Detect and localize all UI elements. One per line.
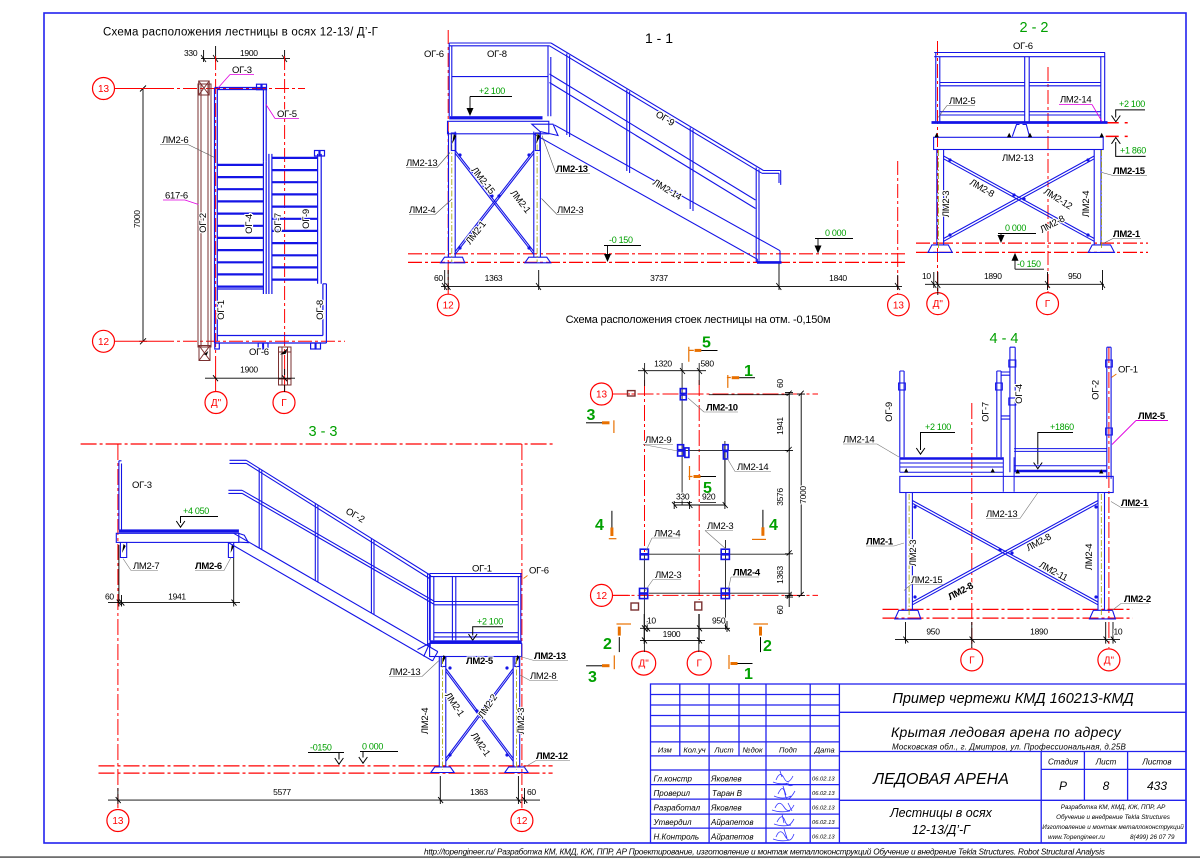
level red dash +2100 bbox=[1106, 122, 1133, 124]
sloped mid rails bbox=[550, 74, 756, 209]
left revision table horizontals bbox=[651, 695, 840, 829]
svg-text:ЛМ2-3: ЛМ2-3 bbox=[941, 191, 952, 217]
svg-text:Подп: Подп bbox=[779, 746, 797, 755]
svg-text:+2 100: +2 100 bbox=[1119, 99, 1145, 109]
ground red lines bbox=[916, 243, 1148, 252]
svg-text:4 - 4: 4 - 4 bbox=[989, 331, 1018, 347]
black arrow left stub bbox=[204, 351, 209, 355]
dim 330/920 bbox=[672, 444, 728, 509]
svg-text:Проверил: Проверил bbox=[654, 789, 691, 798]
column centerlines olive bbox=[909, 494, 1101, 617]
platform beam bbox=[934, 137, 1104, 149]
svg-text:10: 10 bbox=[1114, 627, 1123, 637]
svg-text:06.02.13: 06.02.13 bbox=[812, 791, 835, 797]
column marker LM2-3 left axis12 bbox=[640, 588, 648, 593]
svg-text:950: 950 bbox=[1068, 271, 1082, 281]
axis D2 vertical red bbox=[1108, 347, 1110, 648]
axis 12 vertical red bbox=[521, 444, 523, 808]
section mark 4 left bbox=[611, 511, 613, 529]
section mark 5 top bbox=[688, 347, 694, 362]
axis G vertical red bbox=[284, 56, 286, 358]
svg-text:06.02.13: 06.02.13 bbox=[812, 820, 835, 826]
svg-text:Московская обл., г. Дмитров, у: Московская обл., г. Дмитров, ул. Професс… bbox=[892, 743, 1127, 752]
column centerlines olive bbox=[443, 658, 517, 770]
stringer foot bbox=[757, 261, 782, 264]
svg-text:ОГ-3: ОГ-3 bbox=[132, 480, 152, 491]
svg-text:06.02.13: 06.02.13 bbox=[812, 806, 835, 812]
left revision table verticals bbox=[680, 684, 840, 843]
svg-text:ОГ-7: ОГ-7 bbox=[981, 402, 992, 422]
bottom grey strip bbox=[0, 856, 1200, 858]
axis 13 red horizontal bbox=[613, 393, 819, 395]
svg-text:3: 3 bbox=[588, 669, 597, 686]
black arrows column tops bbox=[451, 133, 540, 151]
svg-text:10: 10 bbox=[922, 271, 931, 281]
stringer bbox=[229, 533, 438, 661]
axis circle Г bbox=[687, 651, 711, 675]
svg-text:Дата: Дата bbox=[814, 746, 835, 755]
svg-text:Н.Контроль: Н.Контроль bbox=[654, 833, 700, 842]
svg-text:ЛМ2-5: ЛМ2-5 bbox=[466, 656, 494, 667]
svg-text:1941: 1941 bbox=[775, 417, 785, 435]
svg-text:950: 950 bbox=[712, 616, 726, 626]
svg-text:Р: Р bbox=[1059, 779, 1067, 793]
right section verticals bbox=[1041, 752, 1127, 844]
svg-text:Д": Д" bbox=[933, 299, 944, 310]
columns 3-3 bbox=[431, 657, 528, 773]
svg-text:ЛМ2-4: ЛМ2-4 bbox=[1084, 544, 1095, 570]
svg-text:ЛМ2-3: ЛМ2-3 bbox=[908, 540, 919, 566]
axis circle Д" bbox=[205, 392, 227, 414]
axis circle 13 bbox=[93, 78, 115, 100]
title block outer frame bbox=[651, 684, 1187, 843]
svg-text:Крытая ледовая арена по адресу: Крытая ледовая арена по адресу bbox=[891, 724, 1122, 740]
svg-text:Кол.уч: Кол.уч bbox=[683, 746, 705, 755]
svg-text:+4 050: +4 050 bbox=[183, 506, 209, 516]
X bracing bbox=[912, 501, 1098, 605]
svg-text:Стадия: Стадия bbox=[1048, 758, 1079, 767]
svg-text:60: 60 bbox=[775, 379, 785, 388]
post OG-9 bbox=[899, 347, 1113, 479]
svg-text:4: 4 bbox=[595, 517, 604, 534]
OG-3 rail post bbox=[119, 461, 122, 530]
svg-text:Лестницы в осях: Лестницы в осях bbox=[889, 806, 993, 820]
svg-text:-0 150: -0 150 bbox=[1017, 259, 1041, 269]
svg-text:2 - 2: 2 - 2 bbox=[1019, 20, 1048, 36]
dim 7000 vertical bbox=[139, 86, 147, 345]
section mark 2 bottom-left bbox=[618, 637, 620, 652]
svg-text:13: 13 bbox=[112, 816, 124, 827]
svg-text:0 000: 0 000 bbox=[1005, 223, 1026, 233]
svg-text:1: 1 bbox=[744, 363, 753, 380]
axis circle 12 bbox=[93, 330, 115, 352]
svg-text:www.Topengineer.ru: www.Topengineer.ru bbox=[1048, 834, 1105, 841]
svg-text:Таран В: Таран В bbox=[712, 789, 743, 798]
svg-text:12: 12 bbox=[596, 591, 608, 602]
gusset dots bbox=[448, 666, 508, 756]
svg-text:Схема расположения стоек лестн: Схема расположения стоек лестницы на отм… bbox=[566, 314, 831, 326]
axis circle Г bbox=[1037, 293, 1059, 315]
svg-text:4: 4 bbox=[769, 517, 778, 534]
svg-text:Д": Д" bbox=[1104, 655, 1115, 666]
columns bbox=[937, 150, 1101, 245]
svg-text:ОГ-7: ОГ-7 bbox=[273, 213, 284, 233]
svg-text:12: 12 bbox=[443, 301, 455, 312]
svg-text:Яковлев: Яковлев bbox=[710, 804, 742, 813]
base plates bbox=[431, 767, 454, 773]
left platform beam bbox=[116, 533, 248, 557]
svg-text:12: 12 bbox=[98, 337, 110, 348]
svg-text:5577: 5577 bbox=[273, 787, 291, 797]
axis G vertical red bbox=[1047, 67, 1049, 292]
svg-text:13: 13 bbox=[596, 390, 608, 401]
stringer stubs bbox=[928, 125, 1114, 253]
axis 12 red horizontal bbox=[613, 594, 819, 596]
posts on slope bbox=[259, 469, 430, 648]
title block bbox=[651, 684, 1187, 843]
grid verticals black bbox=[640, 363, 789, 652]
svg-text:2: 2 bbox=[763, 638, 772, 655]
dim 950/1890/10 bbox=[895, 622, 1120, 648]
right platform railing bbox=[430, 574, 522, 641]
column marker LM2-10 bbox=[640, 389, 730, 599]
svg-text:Пример чертежи КМД 160213-КМД: Пример чертежи КМД 160213-КМД bbox=[892, 691, 1133, 707]
X bracing bbox=[446, 669, 513, 762]
svg-text:330: 330 bbox=[676, 492, 690, 502]
bottom landing bbox=[215, 284, 327, 349]
svg-text:-0 150: -0 150 bbox=[609, 235, 633, 245]
right deck slab bbox=[430, 640, 522, 643]
dim 5577/1363/60 bbox=[108, 776, 540, 804]
black arrows at column stubs 3-3 bbox=[442, 655, 446, 665]
platform railing bbox=[449, 43, 781, 262]
svg-text:Листов: Листов bbox=[1141, 758, 1171, 767]
svg-text:ОГ-8: ОГ-8 bbox=[315, 300, 326, 320]
svg-text:Схема расположения лестницы в: Схема расположения лестницы в осях 12-13… bbox=[103, 27, 379, 39]
svg-text:06.02.13: 06.02.13 bbox=[812, 835, 835, 841]
svg-text:5: 5 bbox=[703, 480, 712, 497]
svg-text:7000: 7000 bbox=[798, 486, 808, 504]
svg-text:ОГ-6: ОГ-6 bbox=[424, 49, 444, 60]
axis 13 vertical red bbox=[897, 161, 899, 294]
svg-text:Обучение и внедрение Tekla St: Обучение и внедрение Tekla Structures bbox=[1056, 813, 1171, 821]
svg-text:ОГ-4: ОГ-4 bbox=[1014, 384, 1025, 404]
svg-text:Д": Д" bbox=[211, 398, 222, 409]
svg-text:60: 60 bbox=[527, 787, 536, 797]
svg-text:13: 13 bbox=[893, 301, 905, 312]
svg-text:ОГ-2: ОГ-2 bbox=[1091, 380, 1102, 400]
axis circle Г bbox=[961, 649, 983, 671]
grid horizontals black bbox=[640, 395, 789, 594]
black arrow G stub bbox=[280, 349, 288, 355]
svg-text:3: 3 bbox=[587, 407, 596, 424]
svg-text:ЛМ2-14: ЛМ2-14 bbox=[1060, 95, 1091, 106]
stair plan blue outline bbox=[215, 84, 325, 343]
column 617-6 brown strip bbox=[198, 81, 211, 361]
svg-text:8(499) 26 07 79: 8(499) 26 07 79 bbox=[1130, 834, 1175, 841]
dim 60/1941 left bbox=[108, 545, 240, 607]
svg-text:60: 60 bbox=[775, 605, 785, 614]
svg-text:433: 433 bbox=[1147, 779, 1167, 793]
axis 12 red line bbox=[115, 340, 160, 342]
dim line 330/1900 top bbox=[201, 46, 290, 62]
svg-text:Изм: Изм bbox=[658, 746, 672, 755]
svg-text:Разработка КМ, КМД, КЖ, ППР, А: Разработка КМ, КМД, КЖ, ППР, АР bbox=[1061, 803, 1166, 811]
platform deck slab bbox=[449, 116, 542, 119]
view: section 1-1 bbox=[406, 30, 909, 326]
axis circle 13 bbox=[591, 383, 613, 405]
svg-text:ОГ-1: ОГ-1 bbox=[1118, 365, 1138, 376]
svg-text:2: 2 bbox=[603, 636, 612, 653]
dim vertical 60/1941/3576/1363/60 bbox=[785, 391, 805, 607]
svg-text:Айрапетов: Айрапетов bbox=[710, 833, 754, 842]
stair top rail sloped bbox=[228, 460, 437, 661]
svg-text:ОГ-4: ОГ-4 bbox=[244, 214, 255, 234]
svg-text:-0150: -0150 bbox=[310, 743, 332, 753]
svg-text:1840: 1840 bbox=[829, 273, 847, 283]
svg-text:Г: Г bbox=[696, 659, 702, 670]
svg-text:ЛМ2-13: ЛМ2-13 bbox=[1002, 153, 1033, 164]
svg-text:1363: 1363 bbox=[485, 273, 503, 283]
svg-text:ЛМ2-4: ЛМ2-4 bbox=[420, 708, 431, 734]
right deck +1860 bbox=[1014, 449, 1107, 477]
dim 1320/580 bbox=[638, 368, 706, 374]
column marker LM2-14 bbox=[723, 445, 728, 451]
brown marker axis13 bbox=[628, 391, 636, 396]
deck thick line bbox=[932, 121, 1108, 124]
svg-text:ОГ-8: ОГ-8 bbox=[487, 49, 507, 60]
section mark 2 bottom-right bbox=[760, 637, 762, 652]
svg-text:1363: 1363 bbox=[775, 566, 785, 584]
svg-text:13: 13 bbox=[98, 84, 110, 95]
dim line bottom 60/1363/3737/1840 bbox=[441, 262, 902, 290]
dim 1900 bottom bbox=[205, 369, 295, 392]
section mark 1 top bbox=[727, 375, 731, 388]
svg-text:Гл.констр: Гл.констр bbox=[654, 775, 693, 784]
svg-text:Лист: Лист bbox=[1095, 758, 1117, 767]
section mark 3 bottom-left bbox=[586, 665, 602, 667]
svg-text:0 000: 0 000 bbox=[362, 742, 383, 752]
view: section 2-2 bbox=[916, 20, 1148, 315]
axis 12 vertical red bbox=[447, 30, 449, 294]
section mark 5 middle bbox=[689, 466, 693, 480]
svg-text:+1 860: +1 860 bbox=[1120, 146, 1146, 156]
axis circle 13 bbox=[888, 294, 910, 316]
axis G vertical red bbox=[971, 403, 973, 648]
level red dash +1860 bbox=[1106, 135, 1133, 137]
X bracing bbox=[455, 151, 534, 255]
svg-text:1890: 1890 bbox=[984, 271, 1002, 281]
column marker LM2-4 right axis12 bbox=[721, 588, 729, 593]
top level red line bbox=[81, 443, 553, 445]
base plates bbox=[441, 257, 465, 263]
left deck slab bbox=[119, 529, 239, 532]
section mark 4 right bbox=[762, 510, 764, 529]
axis 13 vertical red bbox=[117, 444, 119, 808]
svg-text:Лист: Лист bbox=[713, 746, 733, 755]
column marker LM2-4 left bbox=[640, 549, 648, 554]
signatures squiggles bbox=[772, 771, 795, 841]
svg-text:5: 5 bbox=[702, 335, 711, 352]
column marker LM2-9 bbox=[678, 445, 684, 450]
axis D vertical red bbox=[215, 56, 217, 80]
axis circle 12 bbox=[511, 810, 533, 832]
axis D2 red vertical bbox=[644, 380, 646, 552]
svg-text:12-13/Д’-Г: 12-13/Д’-Г bbox=[912, 823, 971, 837]
axis circle Г bbox=[273, 392, 295, 414]
column centerline olive right bbox=[939, 150, 1102, 250]
platform beam bbox=[448, 121, 559, 135]
columns bbox=[906, 493, 1105, 611]
svg-text:+2 100: +2 100 bbox=[925, 422, 951, 432]
svg-text:+2 100: +2 100 bbox=[477, 617, 503, 627]
svg-text:3737: 3737 bbox=[650, 273, 668, 283]
right platform beam bbox=[418, 643, 522, 666]
svg-text:Яковлев: Яковлев bbox=[710, 775, 742, 784]
svg-text:1320: 1320 bbox=[654, 359, 672, 369]
base plates bbox=[928, 245, 952, 253]
svg-text:60: 60 bbox=[105, 592, 114, 602]
svg-text:0 000: 0 000 bbox=[825, 228, 846, 238]
svg-text:10: 10 bbox=[647, 616, 656, 626]
brown marker axis12 D bbox=[631, 603, 639, 610]
svg-text:330: 330 bbox=[184, 48, 198, 58]
view: section 3-3 bbox=[81, 424, 570, 832]
stringer bracket bbox=[532, 124, 558, 135]
axis circle Д" bbox=[632, 651, 656, 675]
ground level red lines bbox=[408, 254, 905, 263]
svg-text:1900: 1900 bbox=[663, 629, 681, 639]
column top stubs bbox=[441, 657, 446, 667]
treads right flight bbox=[272, 158, 318, 280]
svg-text:Г: Г bbox=[281, 398, 287, 409]
svg-text:ОГ-9: ОГ-9 bbox=[301, 209, 312, 229]
axis circle Д" bbox=[1098, 649, 1120, 671]
svg-text:+1860: +1860 bbox=[1050, 422, 1074, 432]
svg-text:Айрапетов: Айрапетов bbox=[710, 818, 754, 827]
svg-text:ОГ-6: ОГ-6 bbox=[1013, 41, 1033, 52]
section mark 1 bottom bbox=[737, 663, 753, 665]
axis 13 red line bbox=[115, 56, 345, 391]
svg-text:Д": Д" bbox=[639, 659, 650, 670]
dim line 10/1890/950 bbox=[925, 270, 1105, 295]
svg-text:1941: 1941 bbox=[168, 592, 186, 602]
svg-text:1900: 1900 bbox=[240, 365, 258, 375]
svg-text:1900: 1900 bbox=[240, 48, 258, 58]
svg-text:ЛМ2-4: ЛМ2-4 bbox=[1081, 191, 1092, 217]
sloped top rail bbox=[550, 43, 781, 185]
mid rails sloped bbox=[228, 490, 433, 604]
svg-text:8: 8 bbox=[1103, 779, 1110, 793]
svg-text:+2 100: +2 100 bbox=[479, 86, 505, 96]
svg-text:Г: Г bbox=[969, 655, 975, 666]
svg-text:ОГ-6: ОГ-6 bbox=[249, 347, 269, 358]
left deck +2100 bbox=[900, 457, 1004, 460]
brown marker axis12 G bbox=[695, 602, 702, 610]
bottom caption bbox=[424, 847, 1105, 856]
stair stringer bbox=[534, 125, 781, 263]
svg-text:12: 12 bbox=[516, 816, 528, 827]
svg-text:ОГ-9: ОГ-9 bbox=[884, 402, 895, 422]
axis circle 12 bbox=[437, 294, 459, 316]
svg-text:Г: Г bbox=[1045, 299, 1051, 310]
column stub at axis G bottom bbox=[279, 347, 292, 385]
leader 13 bbox=[613, 393, 631, 395]
svg-text:ОГ-1: ОГ-1 bbox=[216, 300, 227, 320]
view: section 4-4 bbox=[843, 331, 1168, 671]
svg-text:ОГ-6: ОГ-6 bbox=[529, 566, 549, 577]
post at platform corner bbox=[548, 46, 551, 116]
svg-text:http://topengineer.ru/ Разраб: http://topengineer.ru/ Разработка КМ, КМ… bbox=[424, 847, 1105, 856]
svg-text:950: 950 bbox=[926, 627, 940, 637]
svg-text:1363: 1363 bbox=[470, 787, 488, 797]
axis circle 12 bbox=[591, 584, 613, 606]
right section horizontals bbox=[839, 712, 1186, 800]
rail posts on slope bbox=[567, 54, 759, 263]
column centerlines olive bbox=[452, 133, 537, 262]
svg-text:1890: 1890 bbox=[1030, 627, 1048, 637]
ground red lines bbox=[99, 766, 553, 773]
svg-text:60: 60 bbox=[434, 273, 443, 283]
svg-text:№док: №док bbox=[743, 746, 763, 755]
axis D2 vertical red bbox=[937, 41, 939, 292]
treads upper flight bbox=[217, 165, 263, 287]
svg-text:1: 1 bbox=[744, 666, 753, 683]
axis circle 13 bbox=[107, 810, 129, 832]
post OG-4 bbox=[1010, 347, 1015, 472]
section mark 3 top-left bbox=[586, 422, 602, 424]
svg-text:3 - 3: 3 - 3 bbox=[308, 424, 337, 440]
gusset dots bbox=[458, 153, 530, 249]
post OG-7 bbox=[997, 371, 1001, 457]
svg-text:580: 580 bbox=[701, 359, 715, 369]
svg-text:3576: 3576 bbox=[775, 488, 785, 506]
support columns bbox=[441, 132, 551, 263]
view: stance plan bbox=[586, 335, 818, 687]
railing 2-2 bbox=[934, 53, 1105, 122]
svg-text:Изготовление и монтаж металлок: Изготовление и монтаж металлоконструкций bbox=[1042, 823, 1184, 831]
svg-text:1 - 1: 1 - 1 bbox=[645, 30, 673, 46]
main beam bbox=[895, 476, 1116, 619]
axis G red vertical bbox=[698, 380, 700, 600]
black arrows at stub tops 3-3 bbox=[122, 544, 126, 553]
deck support pads black 4-4 bbox=[904, 468, 1103, 473]
ground red lines bbox=[883, 609, 1133, 618]
svg-text:ЛЕДОВАЯ АРЕНА: ЛЕДОВАЯ АРЕНА bbox=[872, 771, 1009, 788]
svg-text:7000: 7000 bbox=[132, 210, 142, 228]
svg-text:ЛМ2-3: ЛМ2-3 bbox=[516, 708, 527, 734]
axis circle Д" bbox=[927, 293, 949, 315]
deck support pads black bbox=[935, 133, 1104, 138]
svg-text:ОГ-1: ОГ-1 bbox=[472, 564, 492, 575]
svg-text:Разработал: Разработал bbox=[654, 804, 701, 813]
svg-text:06.02.13: 06.02.13 bbox=[812, 777, 835, 783]
svg-text:ОГ-2: ОГ-2 bbox=[198, 213, 209, 233]
view: plan top-left bbox=[93, 27, 379, 414]
gusset dots bbox=[913, 505, 1097, 598]
base plates bbox=[895, 610, 921, 619]
svg-text:Утвердил: Утвердил bbox=[653, 818, 693, 827]
dim 10 / 950 bbox=[640, 614, 730, 644]
post OG-2 bbox=[1107, 347, 1111, 479]
X bracing bbox=[944, 156, 1095, 241]
gusset dots bbox=[948, 158, 1089, 236]
column marker LM2-3 right bbox=[721, 549, 729, 554]
